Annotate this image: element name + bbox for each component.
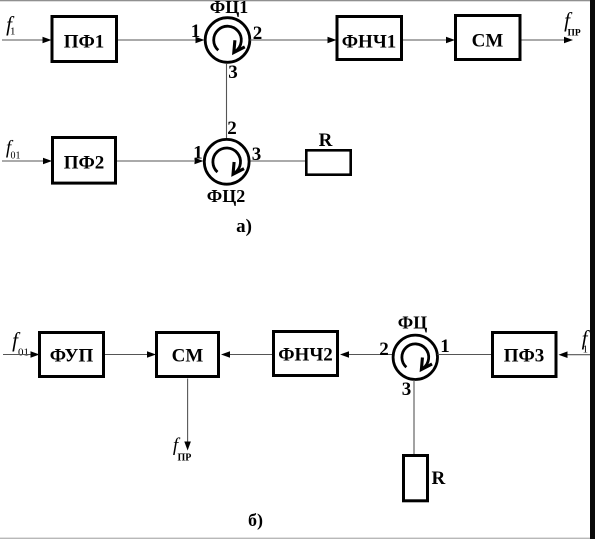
svg-text:ФНЧ1: ФНЧ1 — [342, 32, 397, 53]
svg-text:R: R — [319, 130, 333, 151]
svg-text:3: 3 — [402, 379, 412, 400]
svg-text:ФЦ1: ФЦ1 — [210, 0, 248, 17]
svg-text:ПФ2: ПФ2 — [64, 153, 105, 174]
svg-text:1: 1 — [10, 26, 16, 38]
svg-text:ПФ3: ПФ3 — [504, 346, 545, 367]
svg-text:3: 3 — [252, 144, 262, 165]
svg-text:ПР: ПР — [568, 29, 581, 39]
svg-text:СМ: СМ — [172, 346, 204, 367]
svg-text:ФУП: ФУП — [50, 346, 94, 367]
svg-text:3: 3 — [228, 62, 238, 83]
svg-text:2: 2 — [253, 23, 263, 44]
svg-text:2: 2 — [379, 339, 389, 360]
svg-text:1: 1 — [440, 336, 450, 357]
svg-text:01: 01 — [18, 347, 29, 359]
svg-text:ФНЧ2: ФНЧ2 — [278, 345, 333, 366]
svg-text:1: 1 — [191, 21, 201, 42]
svg-text:2: 2 — [227, 118, 237, 139]
svg-text:б): б) — [248, 510, 263, 531]
svg-text:ФЦ2: ФЦ2 — [207, 186, 245, 206]
svg-text:а): а) — [236, 216, 252, 237]
svg-text:R: R — [432, 468, 446, 489]
svg-text:ПФ1: ПФ1 — [64, 32, 105, 53]
svg-text:ПР: ПР — [178, 453, 192, 464]
svg-text:СМ: СМ — [472, 31, 504, 52]
svg-text:01: 01 — [11, 151, 21, 162]
svg-text:ФЦ: ФЦ — [398, 313, 427, 333]
svg-text:1: 1 — [583, 344, 589, 356]
